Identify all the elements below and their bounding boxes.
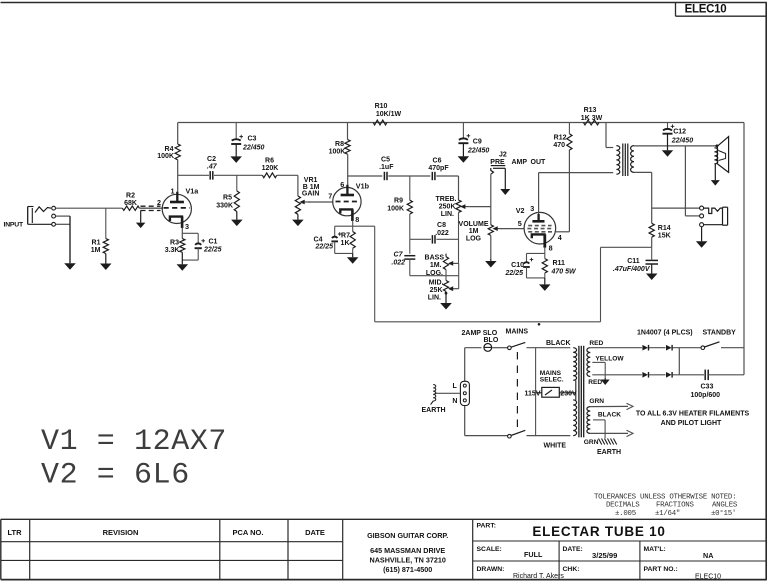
potentiometer TREB 250K	[456, 200, 461, 212]
svg-text:C11: C11	[627, 258, 640, 265]
BASS top stub	[445, 254, 447, 257]
svg-text:100K: 100K	[329, 148, 346, 155]
svg-text:22/450: 22/450	[467, 148, 490, 155]
svg-text:V1b: V1b	[356, 182, 370, 191]
V2 plate	[537, 214, 539, 220]
svg-text:1M: 1M	[469, 228, 479, 235]
output jack J3	[700, 206, 704, 210]
svg-text:R12: R12	[554, 135, 567, 142]
svg-text:22/25: 22/25	[203, 247, 222, 254]
svg-text:470: 470	[553, 142, 565, 149]
svg-text:R11: R11	[553, 260, 566, 267]
V2 grid 3 (screen)	[528, 231, 555, 233]
wire R5 tap	[236, 175, 238, 191]
wire C10 bottom	[526, 267, 528, 278]
svg-text:LIN.: LIN.	[441, 211, 454, 218]
capacitor C33	[704, 370, 706, 381]
ground VOLUME	[490, 259, 492, 261]
svg-text:±1/64": ±1/64"	[655, 510, 680, 518]
wire R9 to node Y	[409, 214, 411, 239]
capacitor C11	[646, 259, 659, 261]
wire C4 bottom	[334, 241, 336, 253]
svg-text:DECIMALS: DECIMALS	[606, 502, 640, 510]
earth lead wire	[435, 392, 461, 394]
svg-text:230V: 230V	[560, 390, 577, 397]
svg-text:CHK:: CHK:	[563, 566, 580, 573]
wire C5 to C6	[388, 175, 430, 177]
svg-text:7: 7	[328, 191, 332, 200]
potentiometer VR1	[295, 196, 300, 214]
svg-text:V1a: V1a	[186, 186, 200, 195]
resistor R11	[542, 259, 547, 273]
resistor R5	[234, 191, 239, 212]
wire switch to PT primary bottom	[527, 435, 571, 437]
svg-text:GAIN: GAIN	[302, 191, 320, 198]
wire node X down to R9	[409, 176, 411, 200]
svg-text:RED: RED	[589, 340, 603, 347]
svg-text:BLACK: BLACK	[598, 412, 621, 419]
svg-text:115V: 115V	[525, 390, 541, 397]
HT center tap	[592, 361, 605, 363]
node pin3 to C1	[182, 232, 198, 234]
wire input tip to R2	[56, 207, 123, 209]
svg-text:1K 3W: 1K 3W	[581, 115, 603, 122]
svg-text:V2 = 6L6: V2 = 6L6	[41, 458, 190, 492]
svg-text:PRE: PRE	[490, 159, 505, 166]
potentiometer MID 25K	[443, 281, 448, 292]
svg-text:.022: .022	[435, 230, 449, 237]
svg-text:R1: R1	[92, 240, 101, 247]
svg-text:BLACK: BLACK	[546, 340, 571, 347]
OT secondary winding	[631, 146, 634, 173]
wire OT secondary top	[634, 145, 685, 147]
wire C8 to rail	[436, 238, 458, 240]
svg-text:C8: C8	[437, 222, 446, 229]
junction dot MID bottom	[445, 292, 447, 294]
svg-text:100p/600: 100p/600	[691, 392, 721, 399]
svg-text:R2: R2	[126, 192, 135, 199]
svg-text:3/25/99: 3/25/99	[592, 551, 617, 560]
junction dot speaker	[716, 145, 719, 148]
svg-text:DATE: DATE	[305, 528, 325, 537]
input jack J1	[27, 207, 29, 225]
svg-text:YELLOW: YELLOW	[595, 356, 624, 363]
sheet right border	[765, 3, 767, 580]
svg-text:PART:: PART:	[477, 522, 497, 529]
svg-text:ELEC10: ELEC10	[695, 574, 721, 581]
resistor R4	[175, 144, 180, 160]
resistor R12	[567, 134, 572, 150]
svg-text:R7: R7	[341, 233, 350, 240]
ground R5	[236, 212, 238, 220]
svg-text:100K: 100K	[387, 205, 404, 212]
svg-text:PART NO.:: PART NO.:	[644, 566, 678, 573]
V2 grid 2	[527, 228, 552, 230]
wire D3 D4	[649, 374, 666, 376]
signal wire R6 to VR1	[277, 174, 298, 176]
svg-text:NA: NA	[703, 551, 713, 560]
svg-text:4: 4	[558, 233, 562, 242]
svg-text:GIBSON GUITAR CORP.: GIBSON GUITAR CORP.	[367, 531, 448, 540]
svg-text:5: 5	[518, 219, 522, 228]
svg-text:.47: .47	[207, 163, 218, 170]
terminal block L N	[460, 381, 469, 405]
capacitor C9 feed	[462, 123, 464, 139]
svg-text:ELEC10: ELEC10	[685, 4, 727, 16]
diode D3	[642, 372, 648, 378]
capacitor C7	[404, 255, 415, 257]
svg-text:LOG: LOG	[466, 235, 482, 242]
wire D1 D2	[649, 347, 666, 349]
junction dot on feedback	[538, 323, 540, 325]
svg-text:R14: R14	[658, 225, 671, 232]
potentiometer BASS 1M	[443, 257, 448, 270]
svg-text:ANGLES: ANGLES	[712, 502, 738, 510]
capacitor C3 feed	[235, 123, 237, 140]
svg-text:22/450: 22/450	[242, 144, 265, 151]
speaker horn	[717, 137, 728, 173]
PT primary tap link	[575, 380, 577, 393]
heater center tap	[593, 419, 605, 421]
diode D4	[666, 372, 672, 378]
svg-text:330K: 330K	[216, 202, 233, 209]
left mains loop	[464, 348, 466, 436]
wire R4 to plate	[177, 160, 179, 192]
wire psu bottom left	[465, 435, 508, 437]
wire D2 to junction	[673, 347, 702, 349]
svg-text:22/25: 22/25	[504, 270, 523, 277]
capacitor C4	[332, 237, 338, 238]
svg-text:2: 2	[157, 198, 161, 207]
PT primary winding lower	[573, 400, 576, 436]
svg-text:3: 3	[530, 204, 534, 213]
sheet top border	[1, 2, 767, 4]
PT core	[578, 346, 580, 438]
mains selector switch	[542, 387, 560, 397]
svg-text:BLO: BLO	[484, 337, 499, 344]
svg-text:INPUT: INPUT	[4, 222, 24, 229]
B+ rail	[178, 122, 744, 124]
V1b cathode	[340, 209, 353, 213]
wire volume wiper to V2 grid	[501, 228, 524, 230]
svg-text:GRN: GRN	[584, 439, 599, 446]
svg-text:N: N	[452, 398, 457, 405]
svg-text:22/450: 22/450	[671, 137, 694, 144]
capacitor C10	[524, 262, 530, 263]
svg-text:MAINS: MAINS	[506, 328, 529, 335]
svg-text:BASS: BASS	[425, 255, 445, 262]
svg-text:VOLUME: VOLUME	[459, 221, 489, 228]
wire R2 to V1a grid (shielded)	[139, 207, 163, 209]
svg-text:Richard T. Akers: Richard T. Akers	[513, 573, 564, 580]
V1b plate	[346, 185, 348, 194]
tube V2 envelope	[524, 212, 556, 244]
resistor R6	[262, 173, 276, 178]
wire C11 top	[651, 247, 653, 260]
resistor R2	[122, 206, 139, 210]
svg-text:PCA NO.: PCA NO.	[233, 528, 264, 537]
svg-text:C1: C1	[209, 238, 218, 245]
heater bottom arrow	[627, 430, 634, 436]
svg-text:C5: C5	[381, 157, 390, 164]
svg-text:MAT'L:: MAT'L:	[644, 546, 666, 553]
svg-text:±0°15': ±0°15'	[711, 509, 736, 518]
svg-text:STANDBY: STANDBY	[703, 329, 737, 336]
svg-text:1: 1	[171, 187, 175, 196]
V2 cathode	[532, 234, 546, 238]
svg-text:NASHVILLE, TN 37210: NASHVILLE, TN 37210	[370, 555, 446, 564]
svg-text:LTR: LTR	[7, 528, 22, 537]
tube V1b envelope	[333, 187, 361, 215]
wire C7 to bottom rail	[409, 259, 411, 276]
svg-text:AND PILOT LIGHT: AND PILOT LIGHT	[661, 420, 722, 427]
heater top arrow	[627, 403, 634, 409]
svg-text:C7: C7	[394, 251, 404, 258]
resistor R8	[345, 140, 350, 155]
wire VR1 wiper to V1b grid	[309, 201, 334, 203]
svg-text:C3: C3	[248, 136, 257, 143]
ground R1	[105, 254, 107, 264]
PT HT secondary winding	[587, 348, 590, 377]
capacitor C2	[209, 171, 211, 180]
signal wire C2 to R6	[214, 174, 262, 176]
svg-text:470pF: 470pF	[428, 165, 449, 172]
standby switch	[701, 346, 705, 350]
wire V2 cathode node	[544, 248, 546, 254]
wire node Y to C8	[410, 238, 431, 240]
ground C12	[667, 134, 669, 151]
ground C3	[235, 144, 237, 156]
wire jack sleeve join	[56, 223, 70, 225]
resistor R14	[649, 223, 654, 237]
svg-text:1K: 1K	[341, 240, 350, 247]
svg-text:6: 6	[340, 180, 344, 189]
svg-text:C12: C12	[673, 128, 686, 135]
wire to speaker	[685, 145, 717, 147]
svg-text:.47uF/400V: .47uF/400V	[613, 266, 651, 273]
wire feedback from V1b cathode	[353, 225, 375, 227]
wire heater bottom	[590, 432, 628, 434]
ground C11	[651, 264, 653, 274]
wire heater top	[590, 405, 628, 407]
svg-text:250K: 250K	[439, 203, 456, 210]
capacitor C12 feed	[667, 123, 669, 129]
TREB wiper	[464, 206, 469, 208]
svg-text:EARTH: EARTH	[422, 407, 446, 414]
wire bass to mid	[445, 270, 447, 281]
svg-text:3: 3	[185, 222, 189, 231]
wire HT top to diodes	[590, 347, 642, 349]
ground MID	[445, 291, 447, 303]
svg-text:C4: C4	[314, 236, 323, 243]
wire J2 to volume	[490, 174, 492, 225]
wire R8 to V1b plate	[347, 154, 349, 192]
wire fuse to switch	[492, 347, 507, 349]
svg-text:ELECTAR TUBE 10: ELECTAR TUBE 10	[532, 524, 665, 539]
svg-text:25K: 25K	[430, 287, 443, 294]
svg-text:R6: R6	[265, 157, 274, 164]
svg-text:R13: R13	[584, 107, 597, 114]
title block grid	[1, 518, 767, 520]
svg-text:R3: R3	[170, 239, 179, 246]
MID wiper	[452, 288, 459, 290]
ground R7 C4	[352, 253, 354, 257]
wire rail to R8	[347, 123, 349, 140]
wire C33 to B+ drop	[708, 374, 744, 376]
tube V1a envelope	[162, 194, 191, 223]
svg-text:RED: RED	[588, 379, 602, 386]
svg-text:.022: .022	[391, 259, 405, 266]
signal wire V1a plate to C2	[178, 174, 209, 176]
drawing number box ELEC10	[675, 3, 677, 17]
svg-text:SELEC.: SELEC.	[540, 376, 564, 383]
potentiometer VOLUME 1M	[488, 225, 493, 236]
svg-text:EARTH: EARTH	[597, 449, 621, 456]
svg-text:±.005: ±.005	[615, 510, 636, 518]
svg-text:TO ALL 6.3V HEATER FILAMENTS: TO ALL 6.3V HEATER FILAMENTS	[636, 410, 750, 417]
mains switch top pole	[508, 346, 512, 350]
wire jack ring to ground	[56, 215, 70, 217]
capacitor C9	[459, 138, 468, 139]
svg-text:120K: 120K	[262, 165, 279, 172]
ground speaker	[714, 164, 716, 180]
PT heater winding	[587, 407, 590, 434]
wire V1b cathode node	[352, 221, 354, 227]
svg-text:.1uF: .1uF	[379, 164, 394, 171]
svg-text:MID.: MID.	[429, 280, 444, 287]
svg-text:FRACTIONS: FRACTIONS	[656, 502, 694, 510]
wire switch to PT primary top	[527, 347, 571, 349]
ground output jack	[701, 227, 703, 242]
OT core	[622, 144, 624, 177]
svg-text:LIN.: LIN.	[428, 294, 441, 301]
ground R11 C10	[544, 278, 546, 285]
svg-text:C33: C33	[701, 384, 714, 391]
diode D2	[666, 345, 672, 351]
heater earth hatch	[599, 439, 602, 445]
mains switch gang dashes	[516, 352, 518, 432]
wire volume bottom	[490, 235, 492, 259]
svg-text:68K: 68K	[124, 200, 137, 207]
wire psu top left	[465, 347, 482, 349]
wire rail to R4	[177, 123, 179, 145]
svg-text:TREB.: TREB.	[436, 196, 457, 203]
svg-text:DRAWN:: DRAWN:	[477, 566, 505, 573]
wire OT secondary bottom	[634, 171, 652, 173]
capacitor C5	[383, 172, 385, 180]
resistor R7	[350, 232, 355, 249]
wire bass wiper rail	[458, 263, 460, 275]
mains selector riser	[535, 348, 537, 436]
wire rail to R12	[568, 123, 570, 134]
wire treb bottom rail	[458, 212, 460, 263]
svg-text:3.3K: 3.3K	[165, 247, 180, 254]
svg-text:WHITE: WHITE	[544, 443, 567, 450]
capacitor C6	[431, 172, 433, 180]
diode D1	[642, 345, 648, 351]
svg-text:SCALE:: SCALE:	[477, 546, 502, 553]
ground J2	[504, 168, 506, 189]
mains switch bottom pole	[508, 434, 512, 438]
wire R14 leads	[651, 208, 653, 223]
BASS wiper	[452, 262, 459, 264]
ground shield	[140, 211, 142, 223]
svg-text:J2: J2	[499, 152, 507, 159]
OT primary winding	[616, 146, 619, 175]
wire R7 leads	[352, 226, 354, 231]
wire V1b plate to C5	[348, 175, 383, 177]
fuse F1	[484, 344, 492, 352]
svg-text:R10: R10	[375, 103, 388, 110]
svg-text:8: 8	[355, 215, 359, 224]
PT primary winding upper	[573, 348, 577, 381]
wire V2 plate up to OT	[538, 173, 540, 214]
speaker voice coil	[714, 148, 717, 164]
svg-text:C2: C2	[207, 156, 216, 163]
mains earth symbol	[433, 385, 436, 401]
wire V2 screen to R12 line	[555, 231, 569, 233]
svg-text:V2: V2	[516, 206, 525, 215]
capacitor C3	[232, 139, 241, 140]
V1a plate	[176, 192, 178, 202]
svg-text:OUT: OUT	[531, 159, 547, 166]
svg-text:LOG.: LOG.	[426, 270, 443, 277]
resistor R1	[103, 239, 108, 254]
V2 grid 1	[528, 225, 551, 227]
wire C1 bottom	[197, 248, 199, 260]
ground R3 C1	[181, 252, 183, 264]
wire rail to OT primary	[605, 123, 607, 148]
capacitor C8	[431, 235, 433, 244]
VOLUME wiper	[497, 228, 503, 230]
svg-text:L: L	[453, 383, 458, 390]
svg-text:R8: R8	[335, 141, 344, 148]
svg-text:R5: R5	[223, 195, 232, 202]
wire R1 tap	[105, 208, 107, 238]
wire D4 to C33	[673, 374, 705, 376]
svg-text:AMP: AMP	[512, 159, 528, 166]
wire HT bottom to diodes	[592, 374, 642, 376]
svg-text:C10: C10	[511, 262, 524, 269]
svg-text:8: 8	[549, 243, 553, 252]
svg-text:470 5W: 470 5W	[551, 269, 578, 276]
svg-text:GRN: GRN	[589, 398, 604, 405]
wire node Y to C7	[409, 239, 411, 254]
ground HT center tap	[604, 378, 606, 380]
ground C9	[462, 143, 464, 156]
wire R11 leads	[544, 253, 546, 258]
wire V1a cathode to R3	[181, 228, 183, 239]
svg-text:C9: C9	[473, 138, 482, 145]
V1a cathode	[170, 217, 183, 221]
svg-text:1N4007 (4 PLCS): 1N4007 (4 PLCS)	[637, 329, 693, 336]
svg-text:REVISION: REVISION	[103, 528, 139, 537]
wire C6 to treble pot	[436, 175, 458, 177]
resistor R9	[407, 200, 412, 214]
wire treb wiper to volume node	[469, 206, 491, 208]
jack J2 PRE AMP OUT	[491, 165, 506, 167]
capacitor C12	[663, 129, 672, 130]
wire B+ right drop	[743, 123, 745, 375]
svg-text:DATE:: DATE:	[563, 546, 583, 553]
svg-text:V1 = 12AX7: V1 = 12AX7	[41, 425, 227, 459]
V1b grid	[336, 201, 359, 203]
ground VR1	[297, 214, 299, 219]
svg-text:10K/1W: 10K/1W	[376, 111, 402, 118]
resistor R13 in rail	[584, 120, 600, 125]
svg-text:R4: R4	[165, 146, 174, 153]
V1a grid	[164, 207, 190, 209]
